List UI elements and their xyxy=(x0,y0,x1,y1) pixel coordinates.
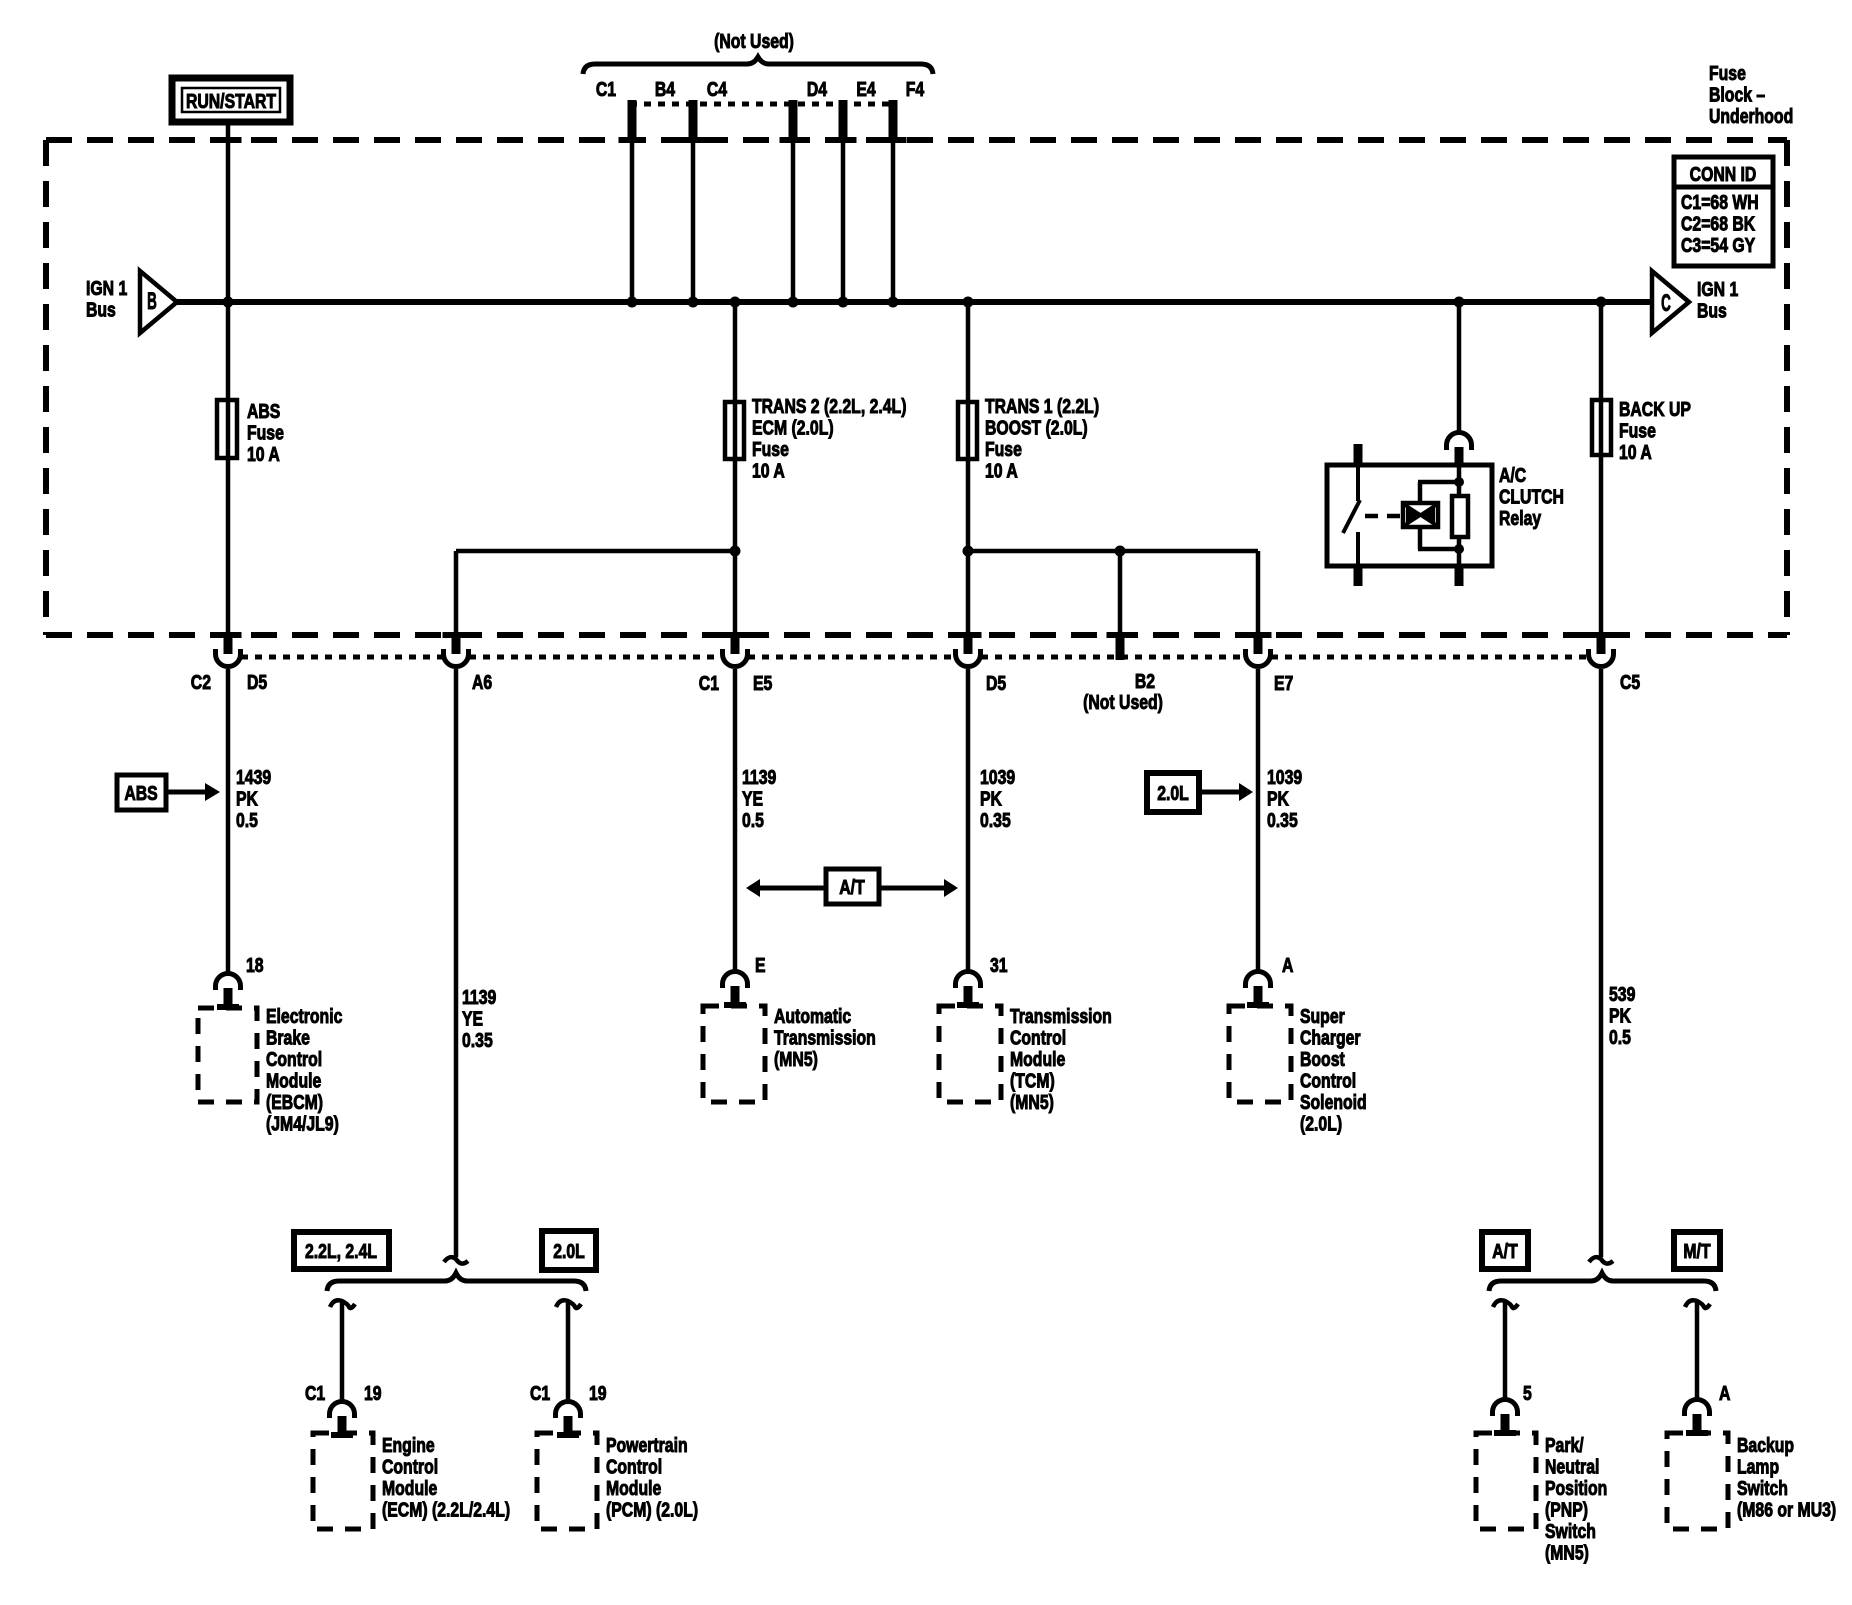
svg-text:Lamp: Lamp xyxy=(1737,1456,1779,1478)
fuse BACK UP 10 A xyxy=(1592,398,1691,463)
svg-text:18: 18 xyxy=(246,954,264,976)
pin E xyxy=(755,954,766,976)
switch Backup Lamp (M86 or MU3) xyxy=(1667,1400,1836,1530)
module Automatic Transmission (MN5) xyxy=(703,972,876,1103)
svg-text:0.5: 0.5 xyxy=(236,809,258,831)
pin C1 (PCM) xyxy=(530,1382,550,1404)
label circuit 1039 PK 0.35 (left) xyxy=(980,766,1015,831)
svg-text:19: 19 xyxy=(589,1382,607,1404)
svg-text:C: C xyxy=(1661,290,1671,317)
pin B2 (not used) xyxy=(1083,637,1163,713)
wire circuit 1039 PK 0.35 (E7 to supercharger solenoid) xyxy=(1256,669,1261,970)
svg-text:1139: 1139 xyxy=(742,766,776,788)
svg-text:YE: YE xyxy=(462,1008,483,1030)
svg-text:2.0L: 2.0L xyxy=(1157,782,1189,804)
module TCM (Transmission Control Module) xyxy=(939,972,1112,1114)
wire bus to TRANS 2 fuse to connector E5 xyxy=(733,302,738,637)
label circuit 1039 PK 0.35 (right) xyxy=(1267,766,1302,831)
pin 19 (PCM) xyxy=(589,1382,607,1404)
svg-text:Backup: Backup xyxy=(1737,1434,1794,1456)
svg-text:(ECM) (2.2L/2.4L): (ECM) (2.2L/2.4L) xyxy=(382,1499,510,1521)
wires pins C1,B4,D4,E4,F4 to bus xyxy=(632,143,893,302)
svg-text:(EBCM): (EBCM) xyxy=(266,1091,323,1113)
svg-text:TRANS 1 (2.2L): TRANS 1 (2.2L) xyxy=(985,395,1099,417)
svg-text:ECM (2.0L): ECM (2.0L) xyxy=(752,417,834,439)
arrow tag 2.0L xyxy=(1147,773,1253,812)
svg-text:C1=68 WH: C1=68 WH xyxy=(1681,191,1759,213)
svg-text:Relay: Relay xyxy=(1499,507,1541,529)
svg-text:2.2L, 2.4L: 2.2L, 2.4L xyxy=(305,1240,377,1262)
svg-text:BOOST (2.0L): BOOST (2.0L) xyxy=(985,417,1088,439)
svg-text:(MN5): (MN5) xyxy=(774,1048,818,1070)
svg-text:Automatic: Automatic xyxy=(774,1005,851,1027)
arrow tag A/T (between 1139 YE and 1039 PK) xyxy=(746,869,958,904)
wire circuit 539 PK 0.5 (C5 down) xyxy=(1599,669,1604,1257)
svg-text:C5: C5 xyxy=(1620,671,1640,693)
wire TRANS 1 branch to connectors B2 / E7 xyxy=(968,551,1258,637)
svg-text:Control: Control xyxy=(382,1456,438,1478)
svg-text:0.5: 0.5 xyxy=(1609,1026,1631,1048)
svg-text:1139: 1139 xyxy=(462,986,496,1008)
junction dots on branch line xyxy=(730,546,1126,557)
svg-text:(MN5): (MN5) xyxy=(1545,1542,1589,1564)
wire end splice (539 PK) xyxy=(1589,1257,1613,1263)
svg-text:ABS: ABS xyxy=(124,782,157,804)
svg-text:10 A: 10 A xyxy=(985,460,1018,482)
wire bus to A/C clutch relay xyxy=(1457,302,1462,432)
svg-text:Boost: Boost xyxy=(1300,1048,1345,1070)
svg-text:D5: D5 xyxy=(986,672,1006,694)
fuse TRANS 1 10 A xyxy=(958,395,1099,482)
pin C4 (not used) xyxy=(707,78,727,100)
svg-text:A/T: A/T xyxy=(1492,1240,1517,1262)
svg-text:PK: PK xyxy=(1609,1005,1631,1027)
svg-text:A/T: A/T xyxy=(839,876,864,898)
svg-text:Fuse: Fuse xyxy=(1619,420,1656,442)
svg-text:Engine: Engine xyxy=(382,1434,435,1456)
svg-text:Solenoid: Solenoid xyxy=(1300,1091,1367,1113)
svg-text:(2.0L): (2.0L) xyxy=(1300,1113,1342,1135)
svg-text:0.35: 0.35 xyxy=(980,809,1011,831)
border crossing tees xyxy=(215,137,1615,638)
svg-text:2.0L: 2.0L xyxy=(553,1240,585,1262)
brace ECM/PCM split xyxy=(327,1273,586,1291)
connector C1/E5 exit xyxy=(699,637,773,694)
svg-text:C4: C4 xyxy=(707,78,727,100)
svg-text:Position: Position xyxy=(1545,1477,1607,1499)
svg-text:Switch: Switch xyxy=(1737,1477,1788,1499)
pin 18 xyxy=(246,954,264,976)
svg-text:Powertrain: Powertrain xyxy=(606,1434,688,1456)
svg-text:B: B xyxy=(147,288,157,315)
svg-text:Transmission: Transmission xyxy=(774,1027,876,1049)
wire IGN 1 bus xyxy=(177,299,1652,305)
svg-text:F4: F4 xyxy=(906,78,924,100)
svg-text:C3=54 GY: C3=54 GY xyxy=(1681,234,1755,256)
svg-text:10 A: 10 A xyxy=(247,443,280,465)
wire branch to PCM xyxy=(556,1300,581,1402)
dotted connector face row (top, not used pins) xyxy=(630,102,895,107)
connector C2/D5 (ABS feed exit) xyxy=(191,637,267,693)
svg-text:Brake: Brake xyxy=(266,1027,310,1049)
svg-text:Fuse: Fuse xyxy=(752,438,789,460)
pin 31 xyxy=(990,954,1008,976)
wire circuit 1039 PK 0.35 (D5 to TCM) xyxy=(966,669,971,970)
pin B4 (not used) xyxy=(655,78,698,143)
junction dots on bus xyxy=(223,297,1607,308)
svg-text:10 A: 10 A xyxy=(1619,441,1652,463)
label circuit 1439 PK 0.5 xyxy=(236,766,271,831)
label: Fuse Block - Underhood xyxy=(1709,62,1793,127)
svg-text:E5: E5 xyxy=(753,672,772,694)
switch feed RUN/START xyxy=(172,78,290,122)
svg-text:Module: Module xyxy=(606,1477,661,1499)
svg-text:C2=68 BK: C2=68 BK xyxy=(1681,213,1755,235)
svg-text:IGN 1: IGN 1 xyxy=(1697,278,1738,300)
svg-text:Module: Module xyxy=(382,1477,437,1499)
svg-text:(Not Used): (Not Used) xyxy=(714,30,794,52)
svg-text:(M86 or MU3): (M86 or MU3) xyxy=(1737,1499,1836,1521)
svg-text:Bus: Bus xyxy=(86,299,116,321)
svg-text:10 A: 10 A xyxy=(752,460,785,482)
svg-text:(Not Used): (Not Used) xyxy=(1083,691,1163,713)
fuse TRANS 2 10 A xyxy=(725,395,906,482)
arrow tag ABS xyxy=(117,775,220,810)
svg-text:B4: B4 xyxy=(655,78,675,100)
connector C5 exit xyxy=(1589,637,1641,693)
dotted connector face row (bottom) xyxy=(241,655,1588,660)
svg-text:Module: Module xyxy=(266,1070,321,1092)
svg-text:E: E xyxy=(755,954,766,976)
svg-text:(JM4/JL9): (JM4/JL9) xyxy=(266,1113,339,1135)
svg-text:(PCM) (2.0L): (PCM) (2.0L) xyxy=(606,1499,698,1521)
pin C1 (not used) xyxy=(596,78,637,143)
svg-text:E7: E7 xyxy=(1274,672,1293,694)
svg-text:C1: C1 xyxy=(305,1382,325,1404)
svg-text:Module: Module xyxy=(1010,1048,1065,1070)
svg-text:(TCM): (TCM) xyxy=(1010,1070,1055,1092)
tag 2.2L, 2.4L xyxy=(294,1232,389,1269)
switch Park/Neutral Position (PNP) xyxy=(1476,1400,1607,1564)
svg-text:PK: PK xyxy=(236,788,258,810)
svg-text:C1: C1 xyxy=(596,78,616,100)
wire circuit 1139 YE 0.5 (E5 to automatic transmission) xyxy=(733,669,738,970)
svg-text:Underhood: Underhood xyxy=(1709,105,1793,127)
svg-text:E4: E4 xyxy=(856,78,875,100)
svg-text:Control: Control xyxy=(266,1048,322,1070)
svg-text:(PNP): (PNP) xyxy=(1545,1499,1588,1521)
pin A (supercharger solenoid) xyxy=(1282,954,1293,976)
svg-text:A/C: A/C xyxy=(1499,464,1526,486)
svg-text:0.35: 0.35 xyxy=(462,1029,493,1051)
connector E7 exit xyxy=(1246,637,1294,694)
svg-text:Super: Super xyxy=(1300,1005,1345,1027)
wire branch to backup lamp switch xyxy=(1685,1300,1710,1398)
svg-text:Bus: Bus xyxy=(1697,300,1727,322)
svg-text:CONN ID: CONN ID xyxy=(1690,163,1757,185)
label circuit 1139 YE 0.35 xyxy=(462,986,496,1051)
module Super Charger Boost Control Solenoid xyxy=(1229,972,1367,1135)
svg-text:Fuse: Fuse xyxy=(1709,62,1746,84)
brace PNP/backup split xyxy=(1489,1273,1716,1291)
svg-text:1039: 1039 xyxy=(1267,766,1302,788)
svg-text:PK: PK xyxy=(980,788,1002,810)
wire bus to TRANS 1 fuse to connector D5 xyxy=(966,302,971,637)
tag M/T xyxy=(1674,1232,1720,1269)
pin D4 (not used) xyxy=(789,78,828,143)
pin C1 (ECM) xyxy=(305,1382,325,1404)
label circuit 539 PK 0.5 xyxy=(1609,983,1635,1048)
svg-text:D4: D4 xyxy=(807,78,827,100)
svg-text:0.35: 0.35 xyxy=(1267,809,1298,831)
fuse ABS 10 A xyxy=(217,400,284,465)
svg-text:Switch: Switch xyxy=(1545,1520,1596,1542)
wire branch to ECM xyxy=(330,1300,355,1402)
svg-text:Control: Control xyxy=(1010,1027,1066,1049)
svg-text:Electronic: Electronic xyxy=(266,1005,342,1027)
svg-text:IGN 1: IGN 1 xyxy=(86,277,127,299)
svg-text:Neutral: Neutral xyxy=(1545,1456,1599,1478)
svg-text:1439: 1439 xyxy=(236,766,271,788)
pin F4 (not used) xyxy=(889,78,925,143)
fuse block - underhood boundary (dashed box) xyxy=(46,140,1787,635)
svg-text:Charger: Charger xyxy=(1300,1027,1361,1049)
svg-text:0.5: 0.5 xyxy=(742,809,764,831)
wire circuit 1139 YE 0.35 (A6 down) xyxy=(454,669,459,1257)
label circuit 1139 YE 0.5 xyxy=(742,766,776,831)
svg-text:A6: A6 xyxy=(472,671,492,693)
svg-text:YE: YE xyxy=(742,788,763,810)
svg-text:A: A xyxy=(1719,1382,1730,1404)
connector D5 exit xyxy=(956,637,1007,694)
node IGN 1 Bus (B, left) xyxy=(86,271,177,333)
svg-text:Control: Control xyxy=(1300,1070,1356,1092)
connector ID table CONN ID xyxy=(1674,157,1773,266)
connector A6 exit xyxy=(444,637,493,693)
svg-text:Transmission: Transmission xyxy=(1010,1005,1112,1027)
svg-text:Block –: Block – xyxy=(1709,84,1765,106)
svg-text:BACK UP: BACK UP xyxy=(1619,398,1691,420)
brace (Not Used) over fuse block pins xyxy=(583,30,933,74)
svg-text:539: 539 xyxy=(1609,983,1635,1005)
svg-text:M/T: M/T xyxy=(1683,1240,1710,1262)
svg-text:A: A xyxy=(1282,954,1293,976)
module EBCM (Electronic Brake Control Module) xyxy=(198,973,342,1134)
svg-text:Fuse: Fuse xyxy=(985,438,1022,460)
svg-text:Fuse: Fuse xyxy=(247,422,284,444)
svg-text:(MN5): (MN5) xyxy=(1010,1091,1054,1113)
pin 5 (PNP) xyxy=(1523,1382,1532,1404)
svg-text:31: 31 xyxy=(990,954,1008,976)
wire end splice (1139 YE) xyxy=(444,1257,468,1263)
svg-text:B2: B2 xyxy=(1135,670,1155,692)
pin 19 (ECM) xyxy=(364,1382,382,1404)
pin A (backup lamp switch) xyxy=(1719,1382,1730,1404)
module ECM (Engine Control Module) xyxy=(313,1402,510,1530)
wire RUN/START to bus xyxy=(226,122,231,302)
svg-text:Park/: Park/ xyxy=(1545,1434,1584,1456)
svg-text:CLUTCH: CLUTCH xyxy=(1499,486,1564,508)
svg-text:C2: C2 xyxy=(191,671,211,693)
wire TRANS 2 branch to connector A6 xyxy=(456,551,735,637)
wire circuit 1439 PK (C2 to EBCM) xyxy=(226,669,231,974)
module PCM (Powertrain Control Module) xyxy=(537,1402,698,1530)
tag 2.0L (PCM) xyxy=(542,1231,596,1270)
svg-text:PK: PK xyxy=(1267,788,1289,810)
svg-text:C1: C1 xyxy=(530,1382,550,1404)
svg-text:C1: C1 xyxy=(699,672,719,694)
wire bus to BACK UP fuse to connector C5 xyxy=(1599,302,1604,637)
relay A/C CLUTCH xyxy=(1327,433,1564,586)
svg-text:Control: Control xyxy=(606,1456,662,1478)
wire branch to PNP switch xyxy=(1493,1300,1518,1398)
node IGN 1 Bus (C, right) xyxy=(1652,271,1738,333)
wire bus to ABS fuse to connector C2 xyxy=(226,302,231,637)
svg-text:TRANS 2 (2.2L, 2.4L): TRANS 2 (2.2L, 2.4L) xyxy=(752,395,906,417)
svg-text:ABS: ABS xyxy=(247,400,280,422)
svg-text:1039: 1039 xyxy=(980,766,1015,788)
svg-text:RUN/START: RUN/START xyxy=(186,90,276,112)
svg-text:5: 5 xyxy=(1523,1382,1532,1404)
pin E4 (not used) xyxy=(839,78,876,143)
svg-text:D5: D5 xyxy=(247,671,267,693)
tag A/T xyxy=(1482,1232,1528,1269)
svg-text:19: 19 xyxy=(364,1382,382,1404)
